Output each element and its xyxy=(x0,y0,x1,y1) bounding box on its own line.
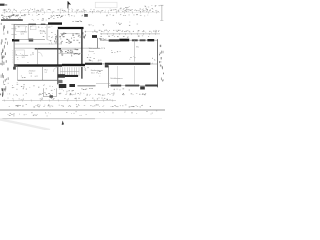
chimney block xyxy=(140,86,145,89)
hall wall vertical xyxy=(57,29,59,66)
top-left dense note block xyxy=(1,14,21,19)
bottom dim chain line xyxy=(2,99,116,101)
under-line text band left xyxy=(7,111,86,116)
bottom wall blob b xyxy=(69,84,75,87)
spine door tab xyxy=(105,65,109,67)
svg-text:11.8: 11.8 xyxy=(29,73,33,75)
dark bar above left wall xyxy=(1,19,23,21)
second bottom line left xyxy=(0,118,95,120)
lower right partition xyxy=(134,66,136,84)
text under cap xyxy=(99,38,102,40)
text above left wall xyxy=(32,18,55,21)
left wall tick c xyxy=(11,34,16,36)
far right dim column xyxy=(159,45,164,82)
stair bottom wall xyxy=(63,75,78,77)
north arrow xyxy=(68,1,71,8)
closet line xyxy=(117,66,119,84)
svg-text:6.0: 6.0 xyxy=(40,33,43,35)
right wall lead text xyxy=(100,38,106,40)
top right sparse text xyxy=(120,5,159,9)
door arc 1 xyxy=(47,40,52,45)
lower bath marks xyxy=(96,71,100,76)
stair rail line xyxy=(60,70,79,72)
svg-text:12.5: 12.5 xyxy=(21,34,25,36)
partition v3 xyxy=(46,24,48,39)
lower-left marks xyxy=(21,76,38,78)
right upper sparse text xyxy=(103,22,138,26)
inner col text a xyxy=(54,36,57,44)
kitchen counter line xyxy=(59,49,79,51)
svg-text:Wohnzimmer 27.6: Wohnzimmer 27.6 xyxy=(89,48,106,50)
svg-text:14.2: 14.2 xyxy=(22,57,26,59)
right room marks xyxy=(111,50,120,53)
lower-right wall seg b xyxy=(125,85,139,87)
left dashed guide xyxy=(12,50,14,64)
below band door marks xyxy=(84,67,89,70)
bath counter line xyxy=(60,33,80,35)
right exterior wall xyxy=(157,39,159,87)
washer blob xyxy=(58,80,63,83)
lower door arc xyxy=(53,67,58,72)
right top wall seg d xyxy=(140,39,146,41)
left wall tick a xyxy=(11,23,16,25)
spine wall right part A xyxy=(85,63,102,65)
hall marks xyxy=(49,32,57,44)
top dim chain faint line xyxy=(2,11,160,13)
title mark top-left xyxy=(0,4,5,6)
bottom scattered text row xyxy=(7,93,146,96)
lower-left bottom wall xyxy=(18,79,63,81)
kitchen fixtures cluster xyxy=(60,49,80,56)
interior wall h3 xyxy=(58,52,82,54)
bottom right sparse text xyxy=(114,88,130,90)
bottom long line xyxy=(0,109,165,111)
lower-left corner mark xyxy=(13,67,16,70)
spine gap shading xyxy=(102,63,105,65)
kitchen wall cap xyxy=(92,35,97,38)
bottom wall mid line xyxy=(78,85,96,87)
spine wall left start cap xyxy=(14,64,18,67)
room1 furniture b xyxy=(30,26,36,30)
right top wall seg a xyxy=(109,39,120,41)
below stair marks xyxy=(59,89,74,92)
bath fixtures cluster xyxy=(59,33,80,44)
legend box outline xyxy=(95,2,117,8)
top wall window seg b xyxy=(41,24,46,25)
right dim sub text xyxy=(100,35,149,37)
interior wall h2 xyxy=(14,47,100,49)
svg-text:1.0: 1.0 xyxy=(150,63,153,65)
right edge dimension bracket xyxy=(161,5,163,20)
lower-left left edge xyxy=(17,67,19,81)
porch bottom blob xyxy=(50,95,53,98)
left exterior wall xyxy=(13,24,15,66)
stair treads xyxy=(60,67,79,76)
text above middle wall xyxy=(72,21,82,22)
interior wall h1b light xyxy=(14,43,62,45)
lower-right wall seg c xyxy=(145,85,157,87)
stair wall vertical xyxy=(81,28,83,66)
right dim ticks xyxy=(101,33,156,35)
window dim text row xyxy=(18,26,52,28)
dark tick block xyxy=(84,14,88,17)
porch right wall xyxy=(55,88,57,96)
top dim row 1 ticks xyxy=(4,11,157,13)
spine wall mid part xyxy=(62,64,85,66)
interior wall h1 xyxy=(14,39,45,41)
spine wall left part xyxy=(18,64,63,66)
bottom dim ticks xyxy=(4,99,113,101)
porch left wall xyxy=(42,88,44,96)
top wall left span xyxy=(14,23,62,25)
left column lower dark bit xyxy=(0,88,3,97)
porch bottom wall xyxy=(43,96,56,98)
stair side wall xyxy=(81,67,83,79)
balcony door marks xyxy=(88,25,93,27)
right top wall seg c xyxy=(132,39,138,41)
top wall window seg a xyxy=(29,24,37,25)
balcony faint line xyxy=(84,31,97,33)
wohnen marks xyxy=(87,53,99,61)
right dim text row xyxy=(92,30,159,33)
bottom dim text above xyxy=(7,98,110,100)
second bottom line right xyxy=(95,118,162,120)
lower-left dark wall xyxy=(57,67,59,84)
below wall annotation band xyxy=(3,83,60,91)
bottom small arrow mark xyxy=(62,121,65,125)
faint fold curve xyxy=(0,120,50,131)
door arc 2 xyxy=(38,52,43,57)
partition v2 xyxy=(37,48,39,64)
top dim row 1 speckle xyxy=(3,9,159,13)
right top wall seg e dark xyxy=(147,39,154,41)
svg-text:5.2: 5.2 xyxy=(45,72,48,74)
middle partition v xyxy=(108,66,110,88)
room2 marks xyxy=(39,27,46,37)
room3 marks xyxy=(16,53,34,63)
top mark mid xyxy=(50,15,62,18)
right room marks c xyxy=(152,58,155,61)
top wall thick middle segment xyxy=(58,27,84,29)
porch marks xyxy=(44,90,52,94)
right room marks b xyxy=(129,56,135,59)
right top wall line xyxy=(100,39,158,41)
bottom mid text xyxy=(81,88,93,90)
bottom wall blob a xyxy=(59,84,67,88)
left dimension column speckle xyxy=(1,23,9,94)
under-line text band right xyxy=(99,111,157,115)
wall blob mid xyxy=(29,39,34,42)
right dim chain line xyxy=(100,33,160,35)
svg-text:Schlafzimmer: Schlafzimmer xyxy=(110,78,122,80)
lower-right wall seg a xyxy=(111,85,122,87)
svg-text:16.4: 16.4 xyxy=(91,72,95,74)
spine wall thin continuation xyxy=(151,63,158,65)
lower-left partition xyxy=(41,67,43,81)
room3 bed outline xyxy=(16,50,25,56)
room1 furniture xyxy=(16,26,26,31)
wall pier dark xyxy=(12,39,19,42)
right top wall seg b dark xyxy=(119,39,129,42)
interior wall h2 dark part xyxy=(35,48,61,50)
inner col text b xyxy=(83,31,86,39)
stair landing blob xyxy=(57,74,65,78)
lower mid thin line xyxy=(96,83,110,85)
right interior partition xyxy=(134,40,136,61)
kitchen wall vertical xyxy=(97,38,99,48)
spine wall right part B xyxy=(105,63,151,65)
bottom full text row xyxy=(9,104,151,107)
partition v1 xyxy=(27,24,29,39)
svg-text:Essen: Essen xyxy=(89,51,94,53)
lower-right bottom thin line xyxy=(109,85,158,87)
top wall dark segment xyxy=(48,22,62,24)
top dim row 2 speckle xyxy=(4,14,149,17)
left wall tick b xyxy=(11,28,16,30)
